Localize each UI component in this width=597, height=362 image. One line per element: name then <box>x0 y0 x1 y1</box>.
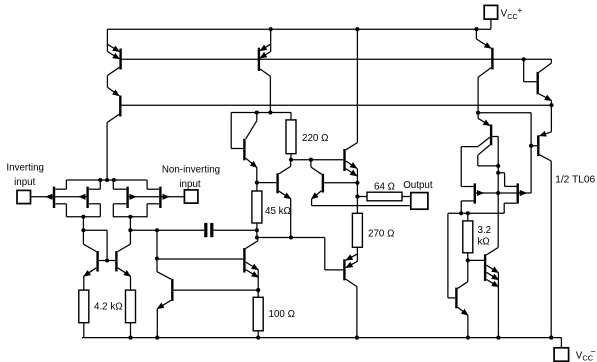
junction dots on VCC- rail <box>128 336 553 340</box>
svg-text:100 Ω: 100 Ω <box>269 309 295 320</box>
resistor R 4.2k left <box>79 290 89 338</box>
wire inverting gate line <box>31 196 87 198</box>
label 220 Ohm <box>302 133 328 144</box>
transistor Q10 (NPN, bottom right) <box>448 260 468 337</box>
label Inverting input <box>6 163 44 188</box>
JFET J2 <box>88 180 101 217</box>
label 100 Ohm <box>269 309 295 320</box>
svg-text:1/2 TL06: 1/2 TL06 <box>555 175 595 186</box>
transistor Q5 (diode-connected NPN, bias) <box>524 59 552 105</box>
resistor R 45k <box>252 183 262 231</box>
resistor R 220 <box>286 113 296 160</box>
transistor Q3 (dual-emitter PNP, top middle) <box>259 29 271 112</box>
transistor Q9 (triple-emitter NPN, right) <box>468 247 499 337</box>
junction dots mirror and cap nodes <box>81 228 293 262</box>
transistor Q16 (NPN, lower left) <box>157 230 258 337</box>
transistor QB (input mirror NPN) <box>116 230 130 290</box>
svg-text:220 Ω: 220 Ω <box>302 133 328 144</box>
resistor R 4.2k right <box>126 290 136 338</box>
resistor R 3.2k <box>463 213 473 260</box>
transistor Q1 (dual-emitter PNP, top left) <box>107 29 120 87</box>
transistor Q7 (dual-emitter NPN driver) <box>345 29 358 196</box>
wire Q16/Q15 base link <box>157 258 243 260</box>
transistor Q13 (output emitter follower NPN) <box>311 160 411 206</box>
wire 220 bottom node line <box>291 159 343 161</box>
svg-text:4.2 kΩ: 4.2 kΩ <box>94 301 123 312</box>
junction dots JFET source rail <box>98 178 116 182</box>
JFET J4 non-inverting <box>147 180 160 217</box>
wire 220 ohm top line <box>231 112 291 114</box>
label Non-inverting input <box>162 165 220 190</box>
svg-text:270 Ω: 270 Ω <box>368 228 394 239</box>
svg-text:3.2: 3.2 <box>478 225 492 236</box>
svg-text:kΩ: kΩ <box>478 236 490 247</box>
wire JFET source rail (top) <box>66 179 146 181</box>
label 64 Ohm <box>374 182 395 193</box>
label Output <box>403 180 433 191</box>
resistor R 100 <box>253 290 263 338</box>
transistor Q6 (PNP, right side) <box>531 105 551 337</box>
VCC+ pad <box>484 5 497 29</box>
label 270 Ohm <box>368 228 394 239</box>
junction dots output driver net <box>355 181 359 199</box>
JFET J6 (current source, right, mirrored) <box>498 173 526 214</box>
label 1/2 TL06 <box>555 175 595 186</box>
VCC- label <box>576 346 596 362</box>
svg-text:−: − <box>591 346 596 356</box>
wire J5 source / 3.2k top rail <box>448 213 504 298</box>
pad Output <box>411 193 428 210</box>
svg-text:64 Ω: 64 Ω <box>374 182 395 193</box>
wire JFET drain rail left <box>66 217 100 231</box>
transistor Q2 (PNP cascode, left) <box>107 87 120 180</box>
junction dots on bias rails <box>255 57 554 148</box>
JFET J3 <box>113 180 127 217</box>
JFET J5 (current source, right) <box>461 183 531 213</box>
junction dot 100-ohm top <box>256 288 260 292</box>
JFET input pair: J1 inverting <box>54 180 66 217</box>
wire node B to C <box>256 230 258 237</box>
capacitor C1 (compensation) <box>130 223 257 237</box>
label 4.2 kOhm <box>94 301 123 312</box>
VCC+ rail (top) <box>107 28 491 30</box>
pad inverting input <box>17 190 31 203</box>
junction dot node A (45k top) <box>255 181 259 185</box>
resistor R 64 <box>357 192 410 201</box>
VCC+ label <box>501 5 523 21</box>
transistor Q15 (dual-emitter NPN) <box>244 238 258 291</box>
transistor Q14 (dual-emitter PNP driver) <box>344 254 357 338</box>
svg-text:Non-inverting: Non-inverting <box>162 165 220 176</box>
VCC- rail (bottom) <box>82 338 561 348</box>
junction dots on VCC+ rail <box>269 27 479 31</box>
svg-text:Inverting: Inverting <box>6 163 44 174</box>
wire JFET drain rail right <box>113 217 148 231</box>
transistor Q8 (dual-collector PNP mirror) <box>461 113 498 248</box>
label 3.2 kOhm <box>478 225 492 247</box>
svg-text:input: input <box>179 179 201 190</box>
wire second stage output line <box>257 238 343 270</box>
wire non-inverting gate line <box>129 196 185 198</box>
wire Q4 collector node web <box>478 113 531 193</box>
transistor Q12 (second stage NPN) <box>257 160 291 238</box>
svg-text:Output: Output <box>403 180 433 191</box>
transistor QA (input mirror NPN, diode-connected) <box>83 230 115 290</box>
transistor Q11 (diode-connected NPN) <box>231 113 257 183</box>
svg-text:+: + <box>517 5 522 15</box>
junction dot Q9 base node <box>466 258 470 262</box>
junction dots node 220-ohm bottom <box>289 158 313 162</box>
bias rail (lower base rail) <box>120 104 552 106</box>
label 45 kOhm <box>265 206 291 217</box>
svg-text:input: input <box>14 177 36 188</box>
resistor R 270 <box>352 197 362 262</box>
pad non-inverting input <box>184 190 198 203</box>
junction dots JFET drain taps <box>81 215 132 219</box>
svg-text:45 kΩ: 45 kΩ <box>265 206 291 217</box>
junction dots Q8 mirror net <box>496 164 500 195</box>
VCC- pad <box>554 348 569 361</box>
junction dots J5 source / 3.2k <box>459 211 470 215</box>
bias rail (upper base rail) <box>120 58 552 60</box>
transistor Q4 (PNP, top right) <box>476 29 492 113</box>
